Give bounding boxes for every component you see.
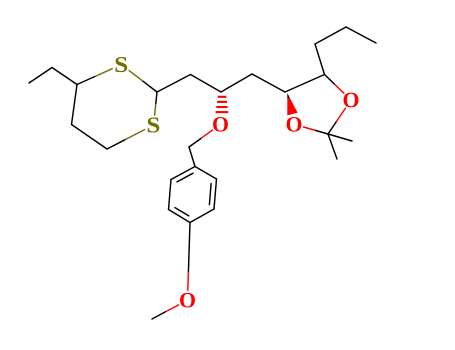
atom S2 [148, 117, 160, 132]
bond C2-V3 [157, 75, 191, 93]
bond CH2-Ar1 [189, 147, 195, 167]
bond Cac-Me1 methyl [328, 134, 352, 141]
bond CW-C4p [285, 75, 325, 93]
bond C4-S2 [107, 130, 145, 149]
bond Ar3-Ar4 [190, 209, 214, 223]
atom O (PMB ether) [213, 117, 228, 132]
bond Cac-Me2 methyl [328, 134, 337, 159]
bond S2-C2 [155, 92, 157, 115]
atom O (dioxolane left) [287, 117, 302, 132]
atom O (methoxy) [180, 293, 195, 308]
bond Ome-MeO methyl [152, 305, 179, 319]
bond Ar2-Ar3 [214, 179, 217, 209]
bold wedge CW-OdxL [287, 93, 290, 99]
bond Or-C4p [325, 75, 344, 94]
bond Cac-Or [328, 108, 345, 134]
bond Opmb-CH2 [189, 130, 212, 147]
bond C5-C4 [72, 125, 108, 150]
bond C4p-T1 [315, 44, 325, 75]
bond Ar4-Ome [188, 223, 190, 291]
bond V3-CH [191, 75, 222, 93]
bond E1-E2 ethyl CH3 [29, 68, 52, 84]
bond S1-C2 [129, 71, 157, 92]
bond T1-T2 [315, 27, 346, 44]
bond Ar1-Ar2 [195, 167, 217, 180]
bond Ar4-Ar5 [169, 210, 191, 223]
bond V5-CW [252, 74, 285, 92]
bond T2-T3 [346, 27, 376, 43]
bond CH-V5 [221, 74, 252, 92]
bond C6-C5 [72, 85, 78, 125]
double bond inner Ar4-Ar5 [175, 208, 189, 216]
hashed wedge CH-Opmb [216, 97, 229, 112]
bond Ar5-Ar6 [169, 180, 172, 210]
bond OdxL-Cac [304, 127, 328, 134]
atom O (dioxolane right) [344, 93, 359, 108]
double bond inner Ar6-Ar1 [177, 173, 193, 182]
bond C6-E1 ethyl CH2 [52, 68, 77, 85]
bond Ar6-Ar1 [171, 167, 195, 180]
double bond inner Ar2-Ar3 [209, 184, 211, 205]
atom S1 [115, 57, 127, 72]
bond S1-C6 [77, 69, 112, 85]
